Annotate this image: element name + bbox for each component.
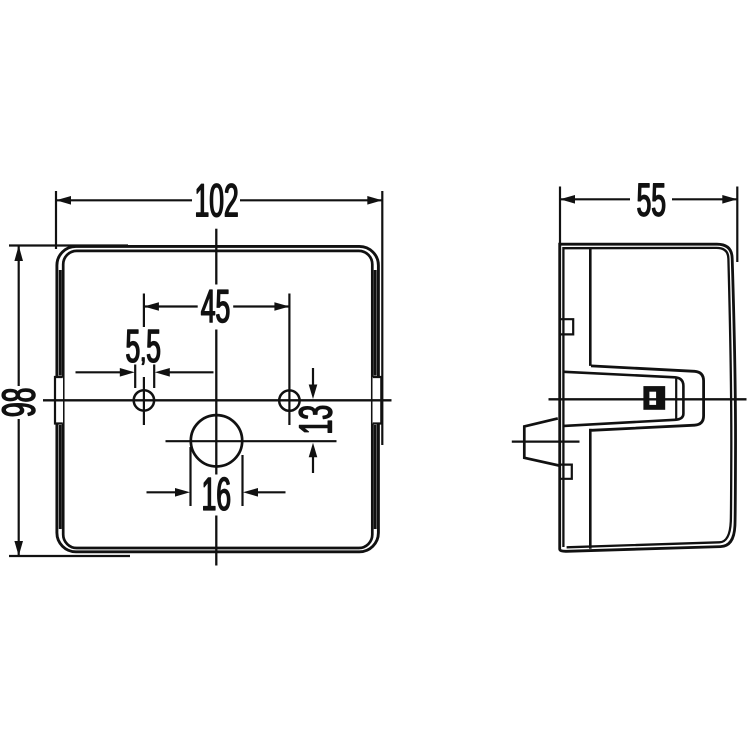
side view internal vertical line lower	[589, 429, 592, 549]
small mounting hole right	[279, 390, 299, 410]
dimension 16 extension lines	[189, 447, 191, 506]
dimension 13 arrow bottom	[309, 443, 318, 473]
dimension 98 line	[14, 246, 23, 557]
horizontal centerline front view	[43, 399, 392, 401]
flange outer profile	[591, 366, 704, 430]
dimension 5,5 extension lines	[134, 365, 136, 389]
dimension 45 line	[144, 302, 290, 311]
socket rim line	[675, 378, 677, 420]
dimension 102 extension line right	[381, 191, 383, 445]
dimension 45 label	[201, 290, 229, 323]
dimension 5,5 arrow right	[155, 368, 214, 377]
bracket centerline	[512, 440, 580, 442]
dimension 102 label	[197, 184, 238, 217]
left hole centerline vertical	[143, 377, 145, 425]
side view internal vertical line upper	[589, 249, 592, 366]
lower notch on back edge	[560, 465, 571, 479]
right edge band filler	[374, 270, 377, 529]
dimension 55 line	[560, 195, 737, 204]
dimension 5,5 label	[127, 330, 160, 365]
left side tab	[55, 377, 63, 424]
dimension 13 label	[299, 406, 332, 432]
dimension 55 extension line right	[736, 187, 738, 263]
left edge band filler	[59, 270, 62, 529]
dimension 16 arrow left	[147, 488, 191, 497]
big cable hole	[191, 415, 242, 466]
dimension 102 extension line left	[55, 191, 57, 249]
dimension 55 label	[638, 184, 665, 217]
horizontal line through big hole	[166, 440, 337, 442]
dimension 16 arrow right	[243, 488, 286, 497]
dimension 98 extension line bottom	[9, 555, 130, 557]
dimension 13 arrow top	[309, 368, 318, 399]
dimension 98 label	[2, 389, 35, 416]
dimension 45 extension line right / right hole centerline	[288, 294, 290, 426]
upper notch on back edge	[561, 319, 573, 334]
front view outer housing outline	[57, 246, 379, 551]
side view outer outline	[560, 244, 736, 551]
dimension 98 extension line top	[9, 244, 128, 246]
connector block	[643, 386, 665, 410]
dimension 16 label	[204, 477, 230, 510]
dimension 45 extension line left (upper part)	[143, 294, 145, 328]
dimension 5,5 arrow left	[76, 368, 135, 377]
right side tab	[373, 377, 382, 424]
side view horizontal centerline	[549, 398, 747, 400]
vertical centerline front view	[215, 229, 217, 285]
dimension 55 extension line left	[559, 187, 561, 251]
side view inner outline	[563, 248, 731, 547]
flange inner profile	[564, 372, 683, 426]
mounting bracket trapezoid	[524, 418, 559, 465]
dimension 102 line	[56, 196, 382, 205]
small mounting hole left	[134, 390, 154, 410]
front view inner lens outline	[63, 251, 372, 548]
